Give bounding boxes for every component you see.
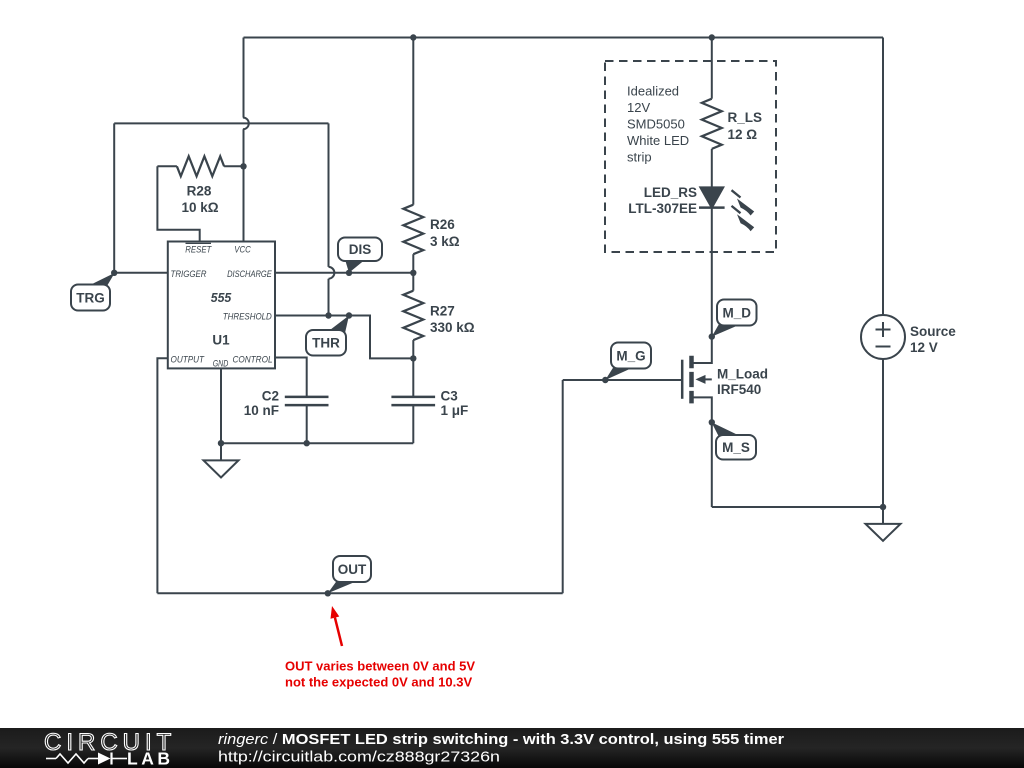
svg-text:CONTROL: CONTROL <box>233 354 273 365</box>
junction top rail / R_LS <box>709 34 715 40</box>
svg-text:DIS: DIS <box>349 242 372 257</box>
svg-text:TRIGGER: TRIGGER <box>171 269 207 280</box>
svg-text:R26: R26 <box>430 217 455 232</box>
junction node OUT <box>325 590 331 596</box>
junction GND rail <box>218 440 224 446</box>
svg-text:TRG: TRG <box>76 290 105 305</box>
svg-text:OUT: OUT <box>338 562 367 577</box>
svg-text:1 μF: 1 μF <box>441 403 469 418</box>
junction node M_S <box>709 419 715 425</box>
node OUT flag <box>328 556 371 593</box>
svg-text:ringerc / MOSFET LED strip swi: ringerc / MOSFET LED strip switching - w… <box>218 731 784 748</box>
junction C2 / GND rail <box>304 440 310 446</box>
wire C3 bottom <box>412 405 414 443</box>
svg-text:R_LS: R_LS <box>728 110 763 125</box>
node M_S flag <box>712 422 757 459</box>
label R26 value <box>430 217 460 249</box>
svg-text:Idealized: Idealized <box>627 84 679 99</box>
svg-text:OUTPUT: OUTPUT <box>171 354 206 365</box>
svg-text:DISCHARGE: DISCHARGE <box>227 269 272 280</box>
label Source value <box>910 324 956 355</box>
LED light arrows <box>732 190 755 231</box>
footer bar <box>0 728 1024 768</box>
wire TRG vertical <box>113 123 115 272</box>
node THR flag <box>306 316 349 356</box>
svg-text:12 V: 12 V <box>910 340 938 355</box>
wire R27 to C3 <box>412 340 414 397</box>
wire CONTROL pin to C2 <box>275 358 307 397</box>
junction node M_G <box>602 377 608 383</box>
junction R27 / C3 / THRESHOLD <box>410 355 416 361</box>
label LED_RS value <box>628 185 697 216</box>
svg-text:10 nF: 10 nF <box>244 403 279 418</box>
svg-text:IRF540: IRF540 <box>717 382 761 397</box>
svg-text:C2: C2 <box>262 388 279 403</box>
transistor M_Load IRF540 MOSFET <box>682 356 712 404</box>
junction R26 / R27 / DISCHARGE <box>410 270 416 276</box>
wire DISCHARGE pin <box>275 272 413 274</box>
svg-text:LAB: LAB <box>127 749 173 768</box>
svg-text:not the expected 0V and 10.3V: not the expected 0V and 10.3V <box>285 675 472 690</box>
LED cathode bar <box>699 206 725 209</box>
junction THRESHOLD link <box>325 312 331 318</box>
red annotation arrow <box>331 606 343 646</box>
svg-text:12V: 12V <box>627 100 650 115</box>
svg-text:12 Ω: 12 Ω <box>728 127 758 142</box>
wire right rail down to source top <box>882 38 884 316</box>
svg-text:M_G: M_G <box>616 348 645 363</box>
junction R28 / VCC <box>240 163 246 169</box>
pin RESET <box>185 243 212 255</box>
op-amp 555 IC U1 box <box>168 242 275 369</box>
label R28 value <box>181 184 218 216</box>
label R27 value <box>430 303 475 335</box>
wire TRG horizontal link <box>114 122 328 124</box>
wire bottom mid rail <box>221 442 413 444</box>
LED LED_RS triangle <box>701 188 724 208</box>
svg-text:OUT varies between 0V and 5V: OUT varies between 0V and 5V <box>285 659 475 674</box>
wire R26-R27 link <box>412 254 414 291</box>
wire GND pin down <box>220 368 222 443</box>
wire OUT bottom rail <box>157 592 562 594</box>
svg-text:GND: GND <box>213 359 229 370</box>
wire TRIGGER pin <box>114 272 168 274</box>
wire MOSFET source to right ground <box>712 506 883 508</box>
MOSFET body arrow <box>696 375 706 384</box>
logo mini resistor-diode <box>46 753 127 765</box>
junction source ground <box>880 504 886 510</box>
label C3 value <box>441 388 469 418</box>
svg-text:555: 555 <box>211 290 232 305</box>
svg-text:3 kΩ: 3 kΩ <box>430 234 460 249</box>
wire R28 leads <box>157 165 243 167</box>
label M_Load value <box>717 366 768 397</box>
dashed LED strip box <box>605 61 776 252</box>
wire RESET jog to R28 <box>157 166 199 241</box>
svg-text:M_Load: M_Load <box>717 366 768 381</box>
wire top supply rail <box>244 37 884 39</box>
resistor R26 3k body <box>403 205 423 255</box>
wire THR vertical with hop <box>329 123 335 315</box>
svg-text:R27: R27 <box>430 303 455 318</box>
red annotation text <box>285 659 475 690</box>
capacitor C2 plates <box>285 397 329 405</box>
svg-text:RESET: RESET <box>185 244 212 255</box>
capacitor C3 plates <box>391 397 435 405</box>
label C2 value <box>244 388 279 418</box>
node TRG flag <box>71 273 115 311</box>
svg-text:Source: Source <box>910 324 956 339</box>
wire R_LS top lead <box>711 38 713 99</box>
wire gate lead <box>563 379 683 381</box>
node M_D flag <box>712 300 757 337</box>
svg-text:U1: U1 <box>212 331 229 347</box>
resistor R_LS body <box>702 99 722 149</box>
svg-text:LTL-307EE: LTL-307EE <box>628 201 697 216</box>
junction node DIS <box>346 270 352 276</box>
note idealized LED strip <box>627 84 689 165</box>
svg-text:White LED: White LED <box>627 133 689 148</box>
wire OUTPUT pin down-left <box>157 358 167 593</box>
node M_G flag <box>605 343 651 381</box>
resistor R28 body <box>177 156 224 176</box>
svg-text:R28: R28 <box>187 184 212 199</box>
svg-text:SMD5050: SMD5050 <box>627 117 685 132</box>
wire R26 top lead <box>412 38 414 205</box>
wire OUT riser <box>562 380 564 593</box>
voltage source Source 12V <box>861 315 905 359</box>
resistor R27 330k body <box>403 291 423 340</box>
ground under C2 <box>204 443 239 477</box>
svg-text:VCC: VCC <box>234 244 251 255</box>
wire VCC branch with hop <box>243 38 249 242</box>
svg-text:LED_RS: LED_RS <box>644 185 697 200</box>
svg-text:M_S: M_S <box>722 440 750 455</box>
svg-text:330 kΩ: 330 kΩ <box>430 320 475 335</box>
svg-text:M_D: M_D <box>723 305 752 320</box>
svg-text:THR: THR <box>312 336 340 351</box>
svg-text:THRESHOLD: THRESHOLD <box>223 312 272 323</box>
ground right <box>866 507 901 541</box>
junction node TRG <box>111 270 117 276</box>
svg-text:http://circuitlab.com/cz888gr2: http://circuitlab.com/cz888gr27326n <box>218 749 500 766</box>
wire source branch <box>692 397 712 507</box>
wire THRESHOLD pin <box>275 316 413 359</box>
junction node THR <box>346 312 352 318</box>
junction top rail / R26 <box>410 34 416 40</box>
junction node M_D <box>709 333 715 339</box>
wire LED top lead <box>711 149 713 188</box>
wire C2 bottom <box>306 405 308 443</box>
wire drain branch <box>692 208 712 363</box>
svg-text:strip: strip <box>627 150 652 165</box>
svg-text:C3: C3 <box>441 388 459 403</box>
node DIS flag <box>338 238 382 273</box>
label R_LS value <box>728 110 763 142</box>
svg-text:10 kΩ: 10 kΩ <box>181 200 218 215</box>
wire source bottom to ground junction <box>882 359 884 507</box>
